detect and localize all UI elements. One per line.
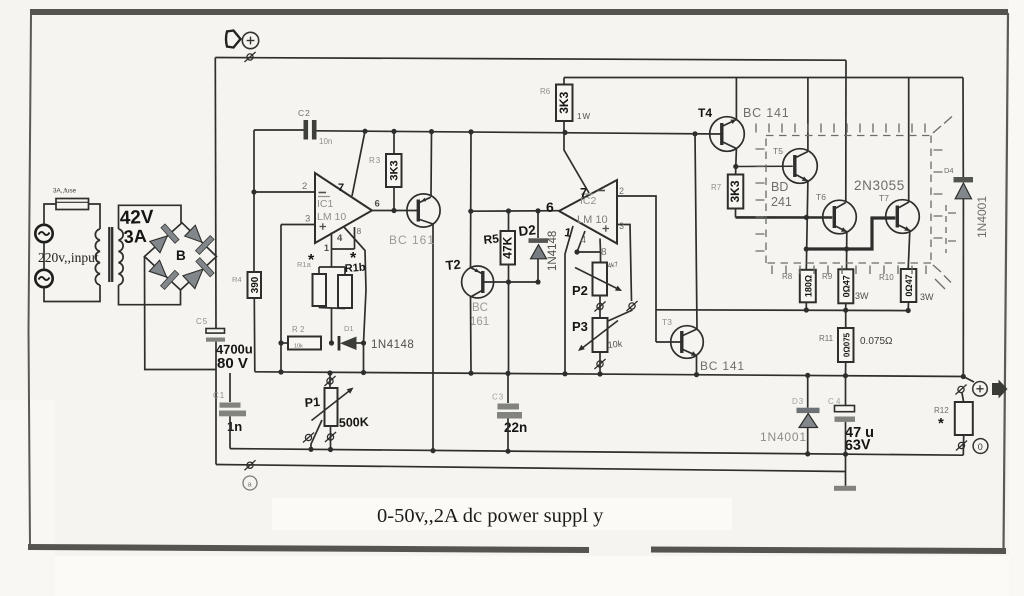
junction bus / R10 bbox=[906, 308, 911, 313]
svg-text:161: 161 bbox=[470, 316, 489, 328]
T2 collector bbox=[471, 290, 483, 297]
junction plus rail / T3 emitter bbox=[694, 372, 699, 377]
svg-text:LM 10: LM 10 bbox=[577, 214, 608, 226]
svg-text:3: 3 bbox=[619, 221, 624, 231]
svg-text:*: * bbox=[350, 250, 357, 267]
P3 wiper arrow bbox=[581, 321, 618, 350]
resistor R3 bbox=[386, 154, 402, 187]
junction plus rail / C3 bbox=[505, 371, 510, 376]
potentiometer P2 bbox=[593, 263, 608, 296]
svg-text:D1: D1 bbox=[344, 324, 354, 333]
capacitor C1 bbox=[220, 403, 241, 408]
wire R9 bottom bbox=[845, 303, 847, 310]
transistor T7 2N3055 bbox=[886, 200, 920, 234]
border frame right line bbox=[1004, 13, 1009, 551]
svg-text:3K3: 3K3 bbox=[557, 91, 571, 113]
T1 emitter bbox=[418, 197, 431, 203]
svg-text:BC 141: BC 141 bbox=[743, 106, 790, 120]
zero volt rail bbox=[230, 449, 963, 456]
svg-text:0-50v,,2A dc power suppl y: 0-50v,,2A dc power suppl y bbox=[377, 505, 604, 527]
bridge diode bottom-left bbox=[149, 260, 172, 282]
junction T5 emitter / T6 base wire bbox=[804, 215, 809, 220]
T6 collector bbox=[834, 203, 846, 210]
svg-text:BC 161: BC 161 bbox=[389, 233, 435, 247]
T4 emitter bbox=[722, 120, 737, 127]
border frame bottom bar left bbox=[28, 547, 589, 550]
svg-text:10k: 10k bbox=[607, 338, 623, 350]
wire T2 emitter up bbox=[470, 132, 473, 268]
svg-text:0Ω47: 0Ω47 bbox=[841, 275, 851, 297]
IC2 output wire bbox=[471, 210, 559, 213]
T3 base wire bbox=[656, 341, 682, 343]
resistor R11 bbox=[838, 328, 854, 362]
wire fuse to transformer primary bbox=[89, 204, 101, 229]
border frame top bar bbox=[30, 9, 1008, 15]
wire P1 top with slash bbox=[329, 373, 331, 388]
svg-text:3: 3 bbox=[305, 214, 310, 225]
T7 collector bbox=[897, 202, 909, 209]
junction T4 collector / T5 base / R7 bbox=[733, 164, 738, 169]
resistor R1a bbox=[313, 274, 327, 306]
transistor T2 BC161 bbox=[462, 266, 494, 298]
wire AC between sources bbox=[43, 242, 45, 270]
wire T2 collector down bbox=[470, 297, 473, 373]
svg-text:3A,,fuse: 3A,,fuse bbox=[53, 188, 77, 195]
input terminal plus circle bbox=[242, 32, 258, 48]
border frame left line bbox=[29, 15, 32, 547]
wire R11 top bbox=[845, 310, 847, 328]
svg-text:R6: R6 bbox=[540, 87, 551, 96]
T7 emitter bbox=[897, 225, 910, 231]
transistor T6 2N3055 bbox=[823, 200, 857, 234]
wire T7 emitter down bbox=[908, 231, 910, 269]
junction on emitter rail at T3 collector line bbox=[692, 131, 697, 136]
wire R1 top bus bbox=[319, 266, 345, 268]
svg-text:B: B bbox=[176, 248, 186, 263]
IC1 pin 1 wire bbox=[331, 233, 333, 268]
junction D1 anode / pin4 line bbox=[361, 340, 366, 345]
transformer TR1 core bbox=[108, 227, 110, 282]
svg-text:3K3: 3K3 bbox=[728, 180, 742, 202]
wire T5 collector up bbox=[807, 78, 809, 152]
svg-text:80 V: 80 V bbox=[217, 355, 248, 372]
wire to T5 base bbox=[736, 165, 793, 167]
svg-text:0Ω47: 0Ω47 bbox=[904, 274, 914, 296]
wire R12 top bbox=[962, 393, 964, 402]
P1 wiper arrow bbox=[312, 390, 352, 421]
svg-text:4: 4 bbox=[337, 233, 343, 244]
wire R10 bottom bbox=[907, 302, 909, 311]
AC source V2 (bottom) bbox=[35, 270, 52, 287]
svg-text:3K3: 3K3 bbox=[388, 160, 400, 180]
P1 left leg wire bbox=[311, 420, 322, 449]
IC2 plus sign bbox=[603, 228, 610, 230]
svg-text:C 4: C 4 bbox=[828, 397, 841, 406]
junction R5 top bbox=[506, 208, 511, 213]
wire IC1 pin3 down bbox=[280, 225, 282, 373]
junction plus rail / IC2 pin1 line bbox=[562, 371, 567, 376]
potentiometer P1 bbox=[325, 388, 338, 426]
wire R7 bottom bbox=[735, 209, 737, 218]
T3 emitter bbox=[682, 349, 697, 356]
wire secondary top to bridge bbox=[119, 205, 182, 229]
IC1 pin 4 wire to D1 bbox=[344, 227, 366, 373]
svg-text:BD: BD bbox=[771, 180, 788, 194]
junction on emitter rail at R6 bbox=[562, 130, 567, 135]
wire R1 bottom bus bbox=[319, 308, 345, 309]
wire AC top to fuse bbox=[44, 204, 56, 225]
wire C3 top bbox=[507, 373, 509, 403]
svg-text:BC: BC bbox=[472, 302, 488, 314]
svg-text:8: 8 bbox=[357, 226, 362, 236]
junction 0 rail / T1 collector bbox=[430, 448, 435, 453]
wire D2 top bbox=[537, 211, 539, 238]
diode D3 1N4001 bbox=[797, 408, 820, 413]
wire T7 collector up bbox=[908, 78, 910, 203]
svg-text:C2: C2 bbox=[298, 108, 311, 118]
wire T6 emitter down bbox=[846, 232, 848, 269]
wire R3 top bbox=[393, 131, 395, 154]
wire P3 bottom bbox=[599, 352, 601, 374]
junction T6 emitter / bus bbox=[844, 246, 849, 251]
svg-text:*: * bbox=[308, 252, 315, 269]
IC2 pin 1 wire bbox=[565, 226, 573, 374]
wire D3 top bbox=[807, 375, 809, 407]
svg-text:3W: 3W bbox=[920, 292, 934, 302]
svg-text:10n: 10n bbox=[319, 137, 332, 146]
IC2 pin 4 wire bbox=[577, 231, 585, 252]
svg-text:P1: P1 bbox=[304, 395, 320, 410]
bridge rectifier B outline bbox=[145, 223, 217, 290]
junction 0 rail / P1 left leg bbox=[308, 447, 313, 452]
wire R11 bottom bbox=[845, 362, 847, 376]
T2 base wire bbox=[483, 281, 538, 283]
resistor R5 bbox=[501, 231, 516, 265]
border frame bottom bar right bbox=[651, 550, 1006, 552]
wire R5 top bbox=[508, 211, 510, 231]
svg-text:P2: P2 bbox=[572, 283, 588, 298]
junction R3/pin6 wire bbox=[391, 208, 396, 213]
zero terminal circle bbox=[973, 439, 988, 454]
AC source V1 (top) bbox=[35, 225, 52, 242]
wire P2 bottom bbox=[599, 296, 601, 319]
svg-text:D3: D3 bbox=[792, 397, 804, 406]
svg-text:T5: T5 bbox=[773, 146, 783, 156]
svg-text:R8: R8 bbox=[782, 272, 793, 281]
IC2 pin 8 wire bbox=[599, 239, 602, 253]
svg-text:R10: R10 bbox=[879, 273, 894, 282]
wire D4 to plus output bbox=[962, 199, 964, 377]
svg-text:1N4148: 1N4148 bbox=[547, 231, 559, 271]
junction 0 rail / P1 bottom bbox=[328, 447, 333, 452]
heatsink dashed boundary bbox=[756, 117, 957, 290]
bridge diode top-left bbox=[150, 230, 173, 252]
wire C4 down to ground bbox=[845, 422, 847, 486]
output arrow icon bbox=[992, 380, 1008, 399]
resistor R2 bbox=[288, 337, 321, 350]
svg-text:T4: T4 bbox=[698, 106, 712, 120]
junction plus rail / pin3 line bbox=[278, 369, 283, 374]
collector bus wire (R8-R10 bottoms) bbox=[656, 309, 910, 312]
transistor T3 BC141 bbox=[671, 326, 704, 359]
connector slash R12 top bbox=[955, 384, 966, 394]
wire raw plus vertical (input terminal to bridge to C5) bbox=[214, 58, 217, 329]
bridge diode top-right bbox=[185, 225, 207, 247]
junction bus / R9 R11 bbox=[843, 308, 848, 313]
svg-text:IC1: IC1 bbox=[317, 198, 334, 210]
junction 0 rail / D3 bbox=[805, 451, 810, 456]
thick base bus T6-T7 bbox=[806, 218, 895, 249]
P1 bottom wire bbox=[330, 426, 332, 450]
op-amp IC1 LM10 triangle bbox=[315, 173, 372, 243]
wire C5 to minus rail bbox=[215, 342, 217, 465]
junction plus rail / P3 bbox=[597, 371, 602, 376]
wire R8 bottom bbox=[805, 302, 807, 310]
junction on emitter rail at pin7 branch bbox=[362, 129, 367, 134]
svg-text:4: 4 bbox=[581, 235, 587, 246]
T4 collector bbox=[722, 142, 737, 149]
IC2 pin 2 wire bbox=[617, 196, 656, 342]
IC1 pin 2 wire bbox=[254, 191, 315, 193]
junction T2 emitter / IC2 out wire bbox=[468, 209, 473, 214]
svg-text:D4: D4 bbox=[944, 166, 954, 175]
svg-text:P3: P3 bbox=[572, 319, 588, 334]
junction plus rail / T2 collector bbox=[468, 371, 473, 376]
raw minus rail bbox=[216, 465, 845, 472]
wire C2 left / R4 top vertical bbox=[253, 130, 255, 272]
svg-text:180Ω: 180Ω bbox=[803, 275, 813, 297]
svg-text:0Ω075: 0Ω075 bbox=[842, 332, 851, 357]
wire T5 emitter down to R8 bbox=[806, 181, 808, 270]
wire plus rail to plus terminal bbox=[963, 377, 974, 383]
raw plus top rail bbox=[215, 58, 846, 61]
resistor R4 bbox=[248, 272, 262, 298]
IC1 plus sign bbox=[320, 226, 327, 228]
svg-text:T3: T3 bbox=[662, 317, 672, 327]
fuse F1 3A bbox=[56, 199, 89, 210]
svg-text:1N4001: 1N4001 bbox=[975, 196, 989, 238]
svg-text:BC 141: BC 141 bbox=[700, 359, 745, 373]
wire R12 bottom bbox=[962, 435, 964, 455]
resistor R8 bbox=[800, 270, 816, 303]
resistor R6 bbox=[556, 85, 573, 122]
junction plus output corner bbox=[961, 374, 966, 379]
input terminal arrow icon bbox=[226, 31, 241, 48]
wire T4 emitter up bbox=[735, 78, 737, 120]
wire C1 bottom bbox=[229, 416, 231, 448]
node a circle bbox=[243, 476, 257, 490]
IC1 pin 6 output wire bbox=[372, 210, 418, 212]
resistor R1b bbox=[338, 275, 352, 308]
svg-text:*: * bbox=[938, 415, 944, 432]
svg-text:R5: R5 bbox=[483, 231, 500, 247]
svg-text:1: 1 bbox=[324, 243, 329, 253]
regulated plus rail bbox=[255, 372, 964, 377]
svg-text:T6: T6 bbox=[816, 192, 826, 202]
junction D2 top bbox=[535, 208, 540, 213]
T2 emitter bbox=[471, 268, 483, 275]
svg-text:LM 10: LM 10 bbox=[317, 211, 346, 223]
wire rail1 down to T6 collector bbox=[845, 60, 847, 202]
svg-text:1N4001: 1N4001 bbox=[760, 430, 807, 444]
T6 emitter bbox=[834, 226, 847, 232]
svg-text:390: 390 bbox=[250, 276, 261, 293]
junction 0 rail / C3 bottom bbox=[505, 449, 510, 454]
svg-text:500K: 500K bbox=[339, 415, 369, 430]
wire T3 collector to T4 base bbox=[695, 134, 697, 329]
svg-text:2: 2 bbox=[302, 181, 307, 192]
wire C3 bottom bbox=[507, 419, 509, 452]
capacitor C5 bbox=[206, 329, 225, 334]
wire bridge minus output bbox=[145, 257, 217, 370]
wire R6 bottom to IC2 pin7 bbox=[564, 121, 589, 193]
resistor R12 bbox=[955, 402, 973, 435]
junction pin2/R4/C2 bbox=[251, 189, 256, 194]
svg-text:1W: 1W bbox=[577, 112, 591, 121]
svg-text:T2: T2 bbox=[445, 257, 461, 273]
wire R2 left bbox=[281, 342, 288, 344]
svg-text:10k: 10k bbox=[294, 344, 303, 350]
wire pin8 to P2 bbox=[600, 252, 602, 263]
capacitor C4 bbox=[835, 406, 855, 412]
wire R4 bottom to plus rail bbox=[253, 298, 256, 372]
junction on emitter rail at T1 emitter bbox=[429, 129, 434, 134]
wire D3 bottom bbox=[807, 428, 809, 454]
capacitor C3 bbox=[498, 404, 520, 410]
wire AC bottom loop bbox=[44, 285, 100, 302]
diode D2 1N4148 bbox=[529, 238, 549, 243]
wire R6 top bbox=[563, 78, 565, 85]
transistor T5 BD241 bbox=[783, 149, 818, 184]
svg-text:R7: R7 bbox=[711, 183, 722, 192]
ground symbol bbox=[834, 486, 856, 491]
transformer TR1 primary winding bbox=[95, 229, 100, 285]
IC1 pin1-pin8 tie wire bbox=[332, 248, 355, 250]
connector slash on pin3 wire bbox=[626, 301, 637, 311]
svg-text:241: 241 bbox=[771, 195, 792, 209]
junction 0 rail / C4 ground bbox=[843, 452, 848, 457]
svg-text:R11: R11 bbox=[819, 334, 834, 343]
wire T4 collector down bbox=[735, 149, 738, 167]
plus terminal circle bbox=[973, 382, 988, 397]
wire rail2 corner down to D4 bbox=[962, 78, 964, 178]
wire T1 emitter up bbox=[430, 132, 433, 197]
junction D2 bottom / T2 base bbox=[535, 279, 540, 284]
T1 collector bbox=[418, 219, 433, 224]
wire R3 bottom bbox=[393, 187, 395, 211]
potentiometer P3 bbox=[593, 318, 608, 352]
op-amp IC2 LM10 triangle bbox=[559, 180, 617, 244]
svg-text:0.075Ω: 0.075Ω bbox=[860, 336, 893, 347]
junction on emitter rail at T2 emitter bbox=[468, 129, 473, 134]
junction plus rail / D1 line bbox=[361, 370, 366, 375]
junction R5 bottom / T2 base bbox=[506, 279, 511, 284]
junction plus rail / P1 bbox=[327, 370, 332, 375]
junction R1/R2/D1 wire bbox=[329, 340, 334, 345]
svg-text:6: 6 bbox=[546, 199, 554, 215]
IC1 pin 7 wire bbox=[352, 131, 365, 196]
diode D4 1N4001 bbox=[954, 177, 974, 182]
junction bus / R8 bbox=[804, 307, 809, 312]
wire pin3 slash to P3 bbox=[608, 310, 633, 321]
P2 wiper arrow bbox=[575, 268, 619, 290]
IC1 pin 3 wire bbox=[281, 224, 315, 226]
svg-text:D2: D2 bbox=[518, 222, 537, 239]
wire R1 bottom to R2 node bbox=[331, 308, 333, 343]
transformer TR1 secondary winding bbox=[119, 229, 124, 285]
junction on emitter rail at R3 bbox=[391, 129, 396, 134]
emitter rail wire (C2 to T4 base) bbox=[254, 130, 721, 134]
junction T5 emitter / emitter bus bbox=[804, 246, 809, 251]
junction pin4/pin8 bbox=[574, 249, 579, 254]
svg-text:3A: 3A bbox=[123, 226, 147, 247]
svg-text:C5: C5 bbox=[196, 317, 208, 326]
resistor R7 bbox=[728, 175, 744, 209]
svg-text:6: 6 bbox=[375, 199, 380, 210]
T3 collector bbox=[682, 329, 697, 336]
junction plus rail / C4 R11 bbox=[843, 373, 848, 378]
transistor T4 BC141 bbox=[710, 117, 745, 152]
diode D1 1N4148 bbox=[338, 336, 341, 351]
T5 collector bbox=[795, 152, 808, 159]
wire C1 top bbox=[229, 373, 231, 402]
svg-text:47K: 47K bbox=[500, 236, 514, 258]
svg-text:8: 8 bbox=[601, 247, 607, 258]
svg-text:C3: C3 bbox=[492, 393, 504, 402]
transistor T1 BC161 bbox=[407, 194, 440, 227]
T6 base feed wire bbox=[736, 216, 833, 219]
upper rail 2 (R6 to D4) bbox=[564, 77, 963, 79]
IC1 pin 8 wire bbox=[354, 227, 356, 249]
svg-text:C1: C1 bbox=[213, 391, 225, 400]
svg-text:3W: 3W bbox=[855, 291, 869, 301]
svg-text:R4: R4 bbox=[232, 275, 242, 284]
IC2 minus sign bbox=[597, 190, 605, 192]
IC2 pin 3 wire bbox=[617, 225, 632, 302]
svg-text:R3: R3 bbox=[369, 156, 381, 165]
svg-text:2: 2 bbox=[619, 186, 624, 196]
IC1 minus sign bbox=[319, 192, 327, 194]
svg-text:1N4148: 1N4148 bbox=[371, 339, 414, 351]
capacitor C2 bbox=[304, 120, 309, 140]
junction plus rail / D3 bbox=[805, 373, 810, 378]
svg-text:R 2: R 2 bbox=[292, 325, 305, 334]
svg-text:63V: 63V bbox=[845, 437, 872, 454]
connector slash R12 bottom bbox=[956, 440, 967, 450]
wire R5 bottom bbox=[508, 265, 510, 283]
bridge diode bottom-right bbox=[183, 263, 209, 289]
wire secondary bottom to bridge bbox=[119, 285, 181, 305]
resistor R10 bbox=[901, 269, 917, 302]
svg-text:2N3055: 2N3055 bbox=[854, 178, 905, 193]
svg-text:R12: R12 bbox=[934, 406, 949, 415]
wire C4 top bbox=[845, 376, 847, 406]
resistor R9 bbox=[838, 269, 853, 303]
junction pin3 line / R2 bbox=[278, 340, 283, 345]
connector slash on minus rail bbox=[244, 460, 255, 470]
wire T3 emitter down bbox=[696, 356, 698, 375]
svg-text:7: 7 bbox=[338, 182, 344, 194]
svg-text:T7: T7 bbox=[879, 193, 889, 203]
wire junction to R7 bbox=[735, 167, 737, 175]
svg-text:220v,,input: 220v,,input bbox=[38, 250, 99, 265]
connector slash at input bbox=[244, 52, 255, 62]
wire T2 base node down to plus rail and C3 bbox=[508, 282, 510, 373]
pin4-pin8 tie wire bbox=[577, 251, 601, 253]
T5 emitter bbox=[795, 174, 808, 181]
svg-text:0: 0 bbox=[978, 442, 983, 452]
wire T1 collector down to 0 rail bbox=[432, 224, 434, 451]
